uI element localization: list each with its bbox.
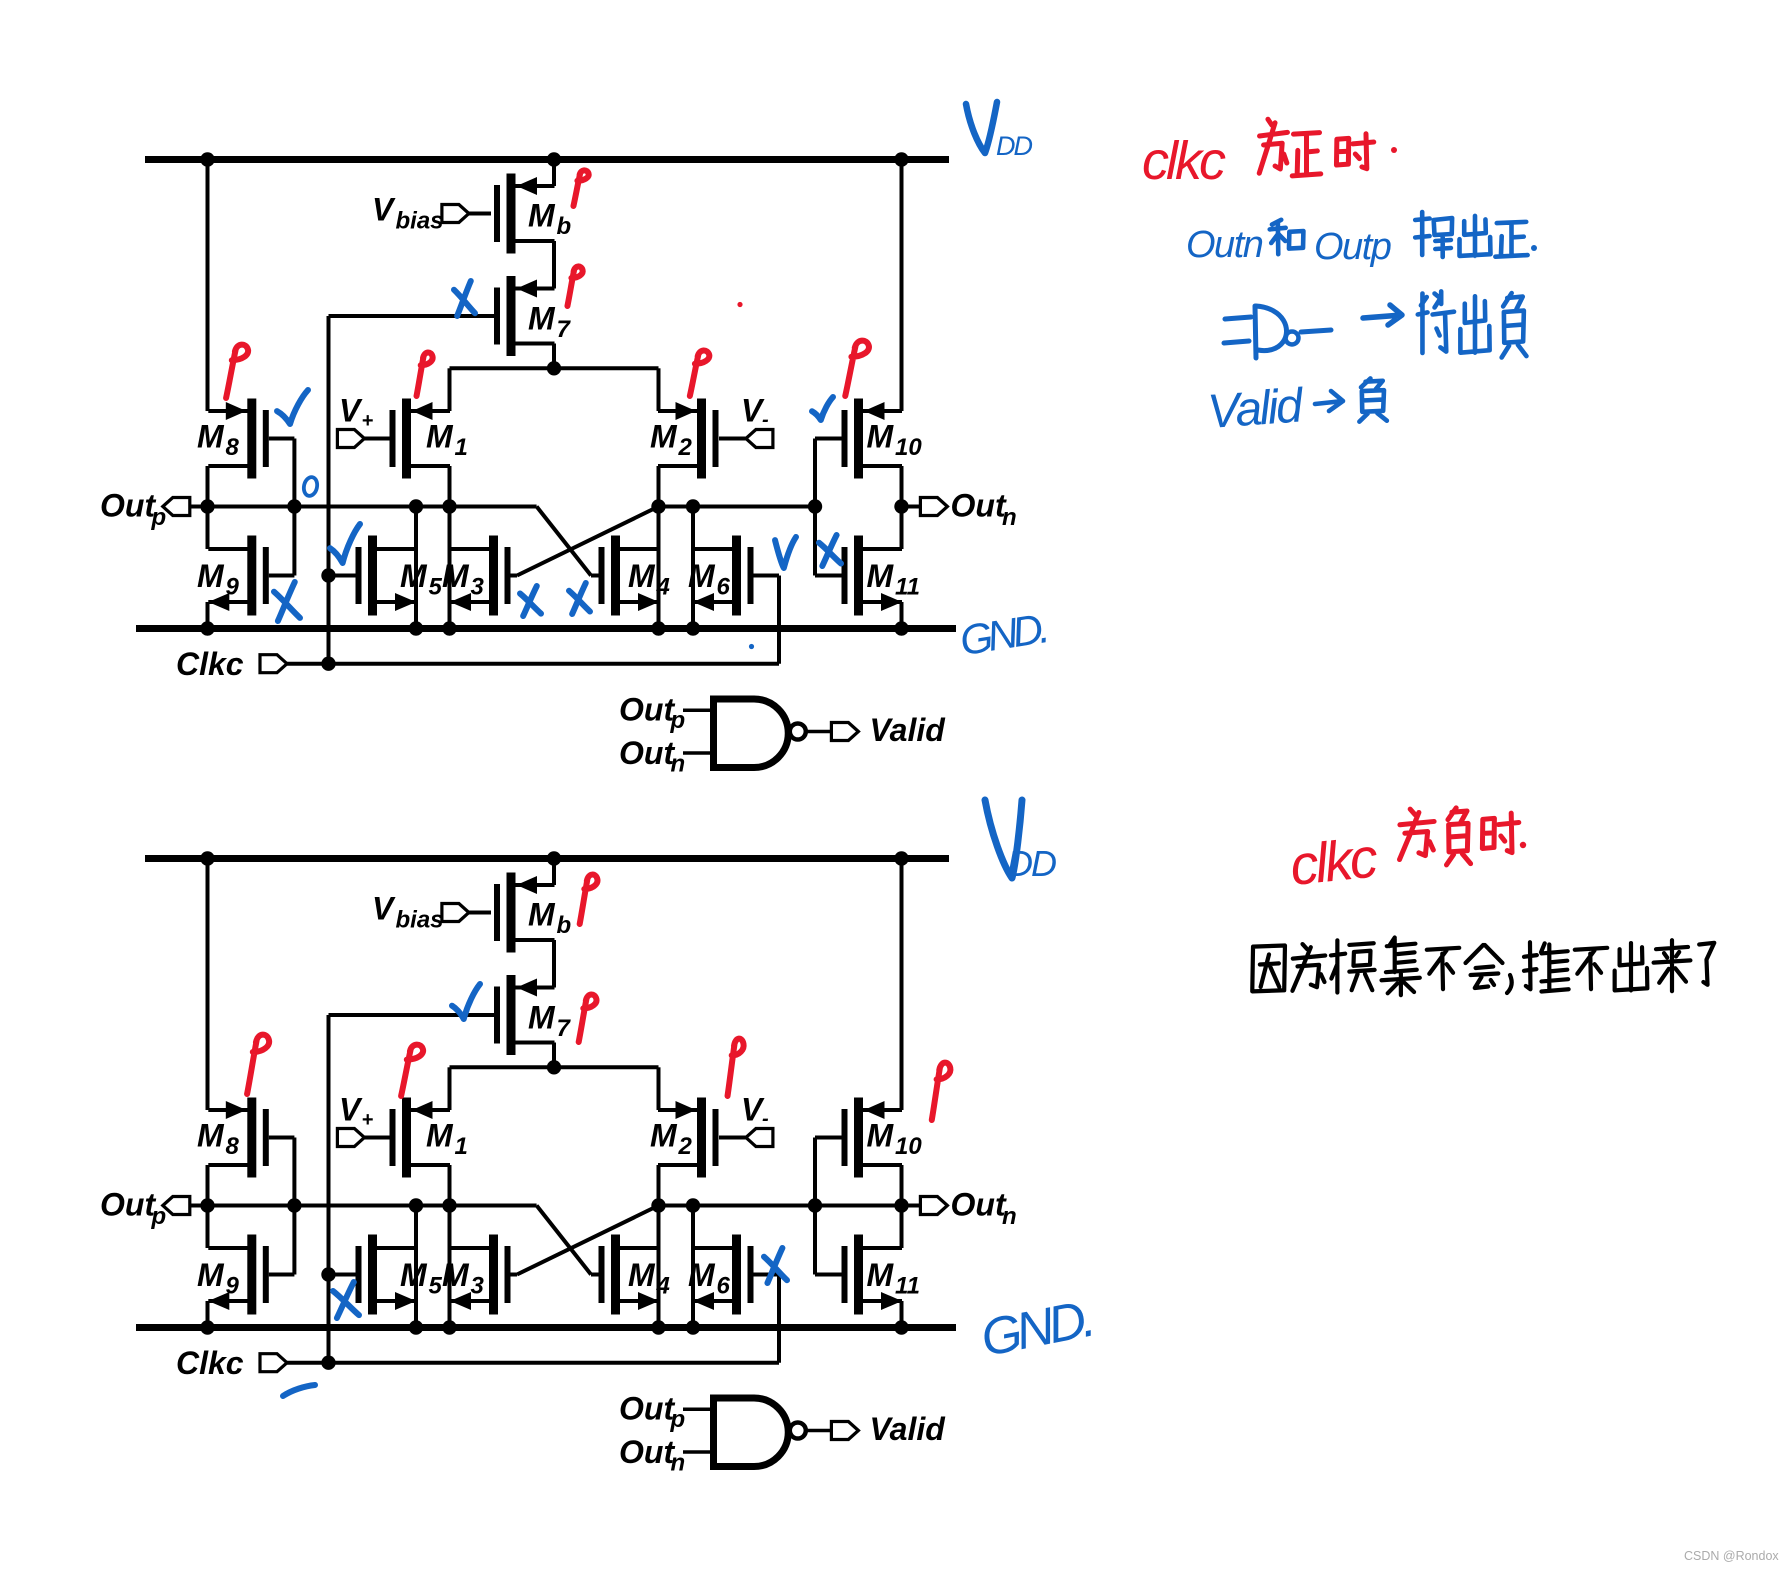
wire internal node right (bottom circuit) [659, 1204, 902, 1208]
transistor M2 (bottom circuit) [650, 1098, 719, 1178]
svg-text:b: b [557, 213, 572, 240]
svg-text:9: 9 [226, 1273, 240, 1300]
label NAND Outn (top circuit) [619, 735, 685, 778]
wire M2 drain down (bottom circuit) [657, 1165, 661, 1328]
annotation black bu char 2 [1575, 948, 1607, 989]
svg-text:M: M [650, 1118, 678, 1154]
transistor M2 (top circuit) [650, 399, 719, 479]
svg-text:M: M [867, 558, 895, 594]
node M5 gate junction (bottom circuit) [321, 1267, 335, 1281]
node Outn junction (top circuit) [894, 499, 908, 513]
svg-text:Out: Out [619, 1391, 675, 1427]
wire Mb drain to M7 (top circuit) [552, 241, 556, 289]
annotation blue dash below Clkc (bottom) [283, 1385, 315, 1396]
svg-text:n: n [1002, 504, 1017, 531]
node gate junction right (bottom circuit) [808, 1198, 822, 1212]
svg-text:clkc: clkc [1287, 825, 1381, 897]
node M6 top junction (bottom circuit) [686, 1198, 700, 1212]
annotation red wei char (bottom) [1400, 809, 1435, 859]
svg-text:Clkc: Clkc [176, 1345, 244, 1381]
node M5 GND junction (bottom circuit) [409, 1320, 423, 1334]
label Outp (top circuit) [100, 488, 166, 532]
svg-text:V: V [339, 393, 363, 429]
annotation black comma [1507, 975, 1512, 993]
svg-text:Out: Out [619, 692, 675, 728]
wire M7 gate to Clkc vertical (top circuit) [329, 316, 495, 664]
svg-text:M: M [528, 897, 556, 933]
node Clkc junction (bottom circuit) [321, 1356, 335, 1370]
pin Vbias (bottom circuit) [442, 904, 491, 922]
node gate junction left (bottom circuit) [287, 1198, 301, 1212]
wire GND rail (bottom circuit) [136, 1324, 956, 1331]
svg-text:M: M [867, 1257, 895, 1293]
wire Mb drain to M7 (bottom circuit) [552, 940, 556, 988]
wire NAND input Outn stub (top circuit) [683, 751, 710, 755]
label Vbias (bottom circuit) [372, 891, 444, 934]
svg-text:+: + [362, 410, 374, 432]
annotation red period (top) [1391, 147, 1397, 153]
node VDD junction right (top circuit) [894, 152, 908, 166]
svg-text:M: M [197, 419, 225, 455]
transistor M11 (bottom circuit) [842, 1235, 920, 1315]
pin Valid output (bottom circuit) [831, 1422, 858, 1440]
svg-text:Clkc: Clkc [176, 646, 244, 682]
wire M7 source lead (top circuit) [537, 287, 554, 291]
annotation blue X on M11 (top) [819, 535, 841, 566]
annotation red P on M10 (bottom) [932, 1063, 951, 1120]
transistor M10 (top circuit) [842, 399, 923, 479]
wire M1 source up to tail (bottom circuit) [448, 1067, 452, 1110]
node M1/M3 junction (top circuit) [442, 499, 456, 513]
svg-text:Valid: Valid [1206, 379, 1306, 439]
svg-text:V: V [372, 192, 396, 228]
wire M10/M11 gate vertical (top circuit) [815, 439, 842, 576]
wire internal node left (top circuit) [208, 505, 537, 509]
node M5 gate junction (top circuit) [321, 568, 335, 582]
pin Outn output (top circuit) [902, 498, 948, 516]
wire M7 gate to Clkc vertical (bottom circuit) [329, 1015, 495, 1363]
svg-text:5: 5 [429, 574, 443, 601]
node Outp junction (top circuit) [200, 499, 214, 513]
label Outn (top circuit) [951, 488, 1017, 532]
svg-text:p: p [670, 1406, 686, 1433]
annotation blue X on M5 (bottom) [333, 1282, 359, 1318]
svg-text:Valid: Valid [870, 1411, 947, 1447]
pin Clkc input (bottom circuit) [260, 1354, 329, 1372]
svg-text:M: M [628, 558, 656, 594]
wire cross-couple to M3 gate (top circuit) [517, 507, 659, 576]
transistor M9 (top circuit) [197, 536, 269, 616]
transistor M6 (top circuit) [688, 536, 754, 616]
annotation blue dot (top) [749, 644, 754, 649]
wire Mb source from VDD (bottom circuit) [537, 859, 554, 886]
wire M10 drain down to Outn (bottom circuit) [900, 1165, 904, 1248]
transistor M7 (top circuit) [494, 276, 572, 356]
wire M1 drain down (top circuit) [448, 466, 452, 629]
svg-text:M: M [442, 1257, 470, 1293]
annotation red zheng char (top) [1292, 133, 1321, 176]
svg-text:4: 4 [656, 1273, 670, 1300]
transistor M11 (top circuit) [842, 536, 920, 616]
annotation blue X on M9 (top) [274, 582, 300, 621]
svg-text:M: M [426, 1118, 454, 1154]
annotation red P on M2 (top) [690, 351, 710, 396]
transistor Mb (bottom circuit) [494, 873, 571, 953]
wire cross-couple to M3 gate (bottom circuit) [517, 1206, 659, 1275]
label Outp (bottom circuit) [100, 1187, 166, 1231]
annotation red P on M7 (top) [567, 266, 582, 306]
svg-text:V: V [339, 1092, 363, 1128]
svg-text:3: 3 [471, 1273, 485, 1300]
wire M7 drain to node (bottom circuit) [552, 1043, 556, 1068]
svg-text:M: M [528, 301, 556, 337]
wire M6 drain vertical (bottom circuit) [691, 1206, 695, 1328]
svg-text:M: M [867, 419, 895, 455]
pin Outp output (bottom circuit) [163, 1197, 208, 1215]
annotation blue X on M7 gate (top) [454, 281, 475, 316]
wire tail node horizontal (top circuit) [450, 366, 659, 370]
svg-text:Out: Out [100, 1187, 156, 1223]
annotation blue X on M3 (top) [520, 586, 541, 616]
annotation red shi char (top) [1336, 134, 1373, 169]
annotation blue check on M8 (top) [277, 390, 308, 424]
annotation blue fu char 2 [1359, 378, 1386, 421]
node VDD junction left (bottom circuit) [200, 851, 214, 865]
annotation red P on M7 (bottom) [579, 995, 597, 1042]
annotation black lai char [1654, 940, 1691, 991]
svg-text:M: M [197, 558, 225, 594]
svg-text:b: b [557, 912, 572, 939]
node M6 top junction (top circuit) [686, 499, 700, 513]
node M5 top junction (top circuit) [409, 499, 423, 513]
pin Vbias (top circuit) [442, 205, 491, 223]
annotation red P on M1 (bottom) [401, 1045, 423, 1096]
wire tail node horizontal (bottom circuit) [450, 1065, 659, 1069]
label Valid (top circuit) [870, 712, 947, 748]
annotation blue zheng char [1495, 222, 1527, 257]
annotation blue he char [1270, 220, 1304, 254]
svg-text:M: M [528, 1000, 556, 1036]
svg-text:6: 6 [717, 1273, 731, 1300]
wire M8/M9 gate vertical (top circuit) [269, 439, 295, 576]
node Clkc junction (top circuit) [321, 657, 335, 671]
annotation black yin char [1252, 945, 1285, 991]
annotation black ji char [1382, 937, 1420, 995]
wire M9 source to GND (top circuit) [206, 602, 210, 629]
svg-text:clkc: clkc [1142, 131, 1226, 191]
svg-text:M: M [442, 558, 470, 594]
svg-text:9: 9 [226, 574, 240, 601]
annotation red P on Mb (top) [573, 170, 588, 206]
wire Mb source from VDD (top circuit) [537, 160, 554, 187]
pin Valid output (top circuit) [831, 723, 858, 741]
pin V- input (top circuit) [719, 430, 773, 448]
wire VDD rail (top circuit) [145, 156, 949, 163]
svg-text:p: p [670, 707, 686, 734]
annotation black tui char [1524, 942, 1569, 991]
svg-text:Out: Out [951, 1187, 1007, 1223]
svg-text:5: 5 [429, 1273, 443, 1300]
transistor M8 (top circuit) [197, 399, 269, 479]
wire M6 gate to Clkc (top circuit) [754, 576, 780, 664]
label NAND Outp (bottom circuit) [619, 1391, 685, 1434]
svg-text:1: 1 [455, 434, 468, 461]
svg-text:10: 10 [895, 434, 922, 461]
svg-text:3: 3 [471, 574, 485, 601]
label watermark [1684, 1549, 1779, 1563]
gate NAND (top circuit) [714, 699, 806, 768]
node gate junction right (top circuit) [808, 499, 822, 513]
annotation red period (bottom) [1520, 842, 1526, 848]
svg-text:n: n [671, 1450, 686, 1477]
wire M10 source from VDD (bottom circuit) [900, 859, 904, 1111]
svg-text:1: 1 [455, 1133, 468, 1160]
svg-text:6: 6 [717, 574, 731, 601]
annotation red shi char (bottom) [1482, 813, 1518, 853]
transistor M5 (bottom circuit) [356, 1235, 443, 1315]
annotation blue GND label (top) [957, 605, 1049, 665]
pin Outn output (bottom circuit) [902, 1197, 948, 1215]
wire M8/M9 gate vertical (bottom circuit) [269, 1138, 295, 1275]
node VDD junction Mb (top circuit) [547, 152, 561, 166]
node tail junction (bottom circuit) [547, 1060, 561, 1074]
wire M6 gate to Clkc (bottom circuit) [754, 1275, 780, 1363]
transistor M1 (bottom circuit) [390, 1098, 468, 1178]
annotation blue VDD label (top) [966, 102, 1032, 161]
annotation blue check on M7 gate (bottom) [452, 984, 480, 1019]
wire M5 drain vertical (bottom circuit) [414, 1206, 418, 1328]
annotation blue GND label (bottom) [976, 1290, 1095, 1368]
annotation blue 0 on node (top) [302, 476, 319, 497]
wire cross-couple to M4 gate (top circuit) [537, 507, 602, 576]
annotation blue arrow 2 [1315, 391, 1343, 411]
annotation blue NAND sketch [1224, 306, 1331, 358]
label NAND Outn (bottom circuit) [619, 1434, 685, 1477]
wire Clkc line (top circuit) [329, 662, 780, 666]
wire M10 source from VDD (top circuit) [900, 160, 904, 412]
transistor M1 (top circuit) [390, 399, 468, 479]
annotation black mo char [1331, 940, 1375, 992]
svg-text:11: 11 [895, 1273, 920, 1300]
node M11 GND junction (bottom circuit) [894, 1320, 908, 1334]
annotation blue Outp text [1314, 226, 1391, 268]
wire cross-couple to M4 gate (bottom circuit) [537, 1206, 602, 1275]
node VDD junction Mb (bottom circuit) [547, 851, 561, 865]
node M9 GND junction (bottom circuit) [200, 1320, 214, 1334]
node M6 GND junction (top circuit) [686, 621, 700, 635]
svg-text:n: n [1002, 1203, 1017, 1230]
svg-text:bias: bias [396, 907, 444, 934]
wire M7 source lead (bottom circuit) [537, 986, 554, 990]
annotation blue fu char [1502, 293, 1527, 357]
label V+ (top circuit) [339, 393, 374, 433]
wire M6 drain vertical (top circuit) [691, 507, 695, 629]
node M9 GND junction (top circuit) [200, 621, 214, 635]
annotation red clkc text (bottom) [1287, 825, 1381, 897]
transistor M5 (top circuit) [356, 536, 443, 616]
node tail junction (top circuit) [547, 361, 561, 375]
wire M2 source up to tail (bottom circuit) [657, 1067, 661, 1110]
label Clkc (bottom circuit) [176, 1345, 244, 1381]
annotation blue VDD label (bottom) [985, 800, 1056, 884]
wire NAND output (top circuit) [806, 730, 832, 734]
svg-text:p: p [151, 1203, 167, 1230]
wire M1 source up to tail (top circuit) [448, 368, 452, 411]
node M11 GND junction (top circuit) [894, 621, 908, 635]
wire M5 gate to Clkc (bottom circuit) [329, 1273, 356, 1277]
gate NAND (bottom circuit) [714, 1398, 806, 1467]
svg-text:2: 2 [678, 434, 693, 461]
svg-text:M: M [197, 1257, 225, 1293]
node M3 GND junction (top circuit) [442, 621, 456, 635]
wire M2 source up to tail (top circuit) [657, 368, 661, 411]
wire M8 source from VDD (top circuit) [206, 160, 210, 412]
annotation blue X on M6 (bottom) [764, 1248, 787, 1283]
annotation red P on M2 (bottom) [728, 1039, 744, 1096]
annotation red P on M1 (top) [417, 352, 433, 396]
svg-text:Out: Out [100, 488, 156, 524]
wire Clkc line (bottom circuit) [329, 1361, 780, 1365]
wire M2 drain down (top circuit) [657, 466, 661, 629]
node VDD junction left (top circuit) [200, 152, 214, 166]
wire VDD rail (bottom circuit) [145, 855, 949, 862]
svg-text:-: - [762, 1108, 769, 1130]
node Outn junction (bottom circuit) [894, 1198, 908, 1212]
node M5 GND junction (top circuit) [409, 621, 423, 635]
wire M5 drain vertical (top circuit) [414, 507, 418, 629]
svg-text:M: M [628, 1257, 656, 1293]
svg-text:Valid: Valid [870, 712, 947, 748]
svg-text:Out: Out [619, 1434, 675, 1470]
node Outp junction (bottom circuit) [200, 1198, 214, 1212]
wire M11 source to GND (top circuit) [900, 602, 904, 629]
svg-text:DD: DD [996, 131, 1032, 161]
svg-text:bias: bias [396, 208, 444, 235]
annotation red P on Mb (bottom) [580, 875, 598, 924]
wire M7 drain to node (top circuit) [552, 344, 556, 369]
annotation blue arrow 1 [1363, 305, 1402, 325]
label Vbias (top circuit) [372, 192, 444, 235]
annotation blue Outn text [1186, 224, 1263, 266]
svg-text:8: 8 [226, 1133, 240, 1160]
annotation blue period [1531, 245, 1537, 251]
pin Outp output (top circuit) [163, 498, 208, 516]
svg-text:7: 7 [557, 1015, 572, 1042]
svg-text:V: V [372, 891, 396, 927]
wire NAND input Outp stub (top circuit) [683, 709, 710, 713]
svg-text:+: + [362, 1109, 374, 1131]
svg-text:4: 4 [656, 574, 670, 601]
node gate junction left (top circuit) [287, 499, 301, 513]
wire GND rail (top circuit) [136, 625, 956, 632]
transistor M6 (bottom circuit) [688, 1235, 754, 1315]
svg-text:Outn: Outn [1186, 224, 1263, 266]
label Valid (bottom circuit) [870, 1411, 947, 1447]
annotation blue chu char [1460, 216, 1491, 256]
label NAND Outp (top circuit) [619, 692, 685, 735]
svg-text:M: M [197, 1118, 225, 1154]
pin V+ input (top circuit) [337, 430, 390, 448]
wire M10/M11 gate vertical (bottom circuit) [815, 1138, 842, 1275]
label Clkc (top circuit) [176, 646, 244, 682]
node M1/M3 junction (bottom circuit) [442, 1198, 456, 1212]
svg-text:DD: DD [1007, 843, 1056, 884]
label Outn (bottom circuit) [951, 1187, 1017, 1231]
svg-text:2: 2 [678, 1133, 693, 1160]
svg-text:Outp: Outp [1314, 226, 1391, 268]
svg-text:Out: Out [619, 735, 675, 771]
annotation black chu char 3 [1615, 943, 1648, 990]
wire M8 drain down to Outp (top circuit) [206, 466, 210, 549]
svg-text:-: - [762, 409, 769, 431]
svg-text:11: 11 [895, 574, 920, 601]
transistor M4 (top circuit) [599, 536, 670, 616]
transistor M3 (top circuit) [442, 536, 511, 616]
wire M8 source from VDD (bottom circuit) [206, 859, 210, 1111]
wire internal node right (top circuit) [659, 505, 816, 509]
transistor M7 (bottom circuit) [494, 975, 572, 1055]
annotation red wei char (top) [1259, 119, 1287, 173]
node M6 GND junction (bottom circuit) [686, 1320, 700, 1334]
pin Clkc input (top circuit) [260, 655, 329, 673]
label V+ (bottom circuit) [339, 1092, 374, 1132]
annotation blue check on M10 (top) [812, 397, 833, 420]
annotation black bu char [1427, 948, 1459, 989]
svg-text:M: M [867, 1118, 895, 1154]
annotation blue chu char 2 [1460, 296, 1489, 352]
annotation blue X on M4 (top) [569, 583, 590, 614]
annotation blue V on M6 (top) [775, 537, 796, 568]
wire M5 gate to Clkc (top circuit) [329, 574, 356, 578]
svg-text:n: n [671, 751, 686, 778]
transistor M9 (bottom circuit) [197, 1235, 269, 1315]
wire M3 gate from cross (top circuit) [511, 574, 518, 578]
annotation red P on M8 (top) [226, 345, 248, 398]
pin V+ input (bottom circuit) [337, 1129, 390, 1147]
wire M10 drain down to Outn (top circuit) [900, 466, 904, 549]
wire M8 drain down to Outp (bottom circuit) [206, 1165, 210, 1248]
node VDD junction right (bottom circuit) [894, 851, 908, 865]
annotation red P on M10 (top) [845, 341, 869, 396]
svg-text:10: 10 [895, 1133, 922, 1160]
annotation blue Valid text [1206, 379, 1306, 439]
annotation blue shu char [1415, 212, 1452, 257]
wire M11 source to GND (bottom circuit) [900, 1301, 904, 1328]
svg-text:M: M [650, 419, 678, 455]
annotation red P on M8 (bottom) [247, 1035, 269, 1094]
svg-text:7: 7 [557, 316, 572, 343]
annotation blue check on M5 (top) [330, 524, 360, 563]
node M2/M4 junction (bottom circuit) [651, 1198, 665, 1212]
annotation black wei char [1292, 944, 1325, 991]
wire M9 source to GND (bottom circuit) [206, 1301, 210, 1328]
wire NAND output (bottom circuit) [806, 1429, 832, 1433]
transistor Mb (top circuit) [494, 174, 571, 254]
svg-text:CSDN @Rondox: CSDN @Rondox [1684, 1549, 1779, 1563]
label V- (bottom circuit) [741, 1092, 769, 1131]
annotation red dot (top) [737, 302, 742, 307]
svg-text:M: M [426, 419, 454, 455]
transistor M3 (bottom circuit) [442, 1235, 511, 1315]
pin V- input (bottom circuit) [719, 1129, 773, 1147]
annotation red clkc text (top) [1142, 131, 1226, 191]
wire internal node left (bottom circuit) [208, 1204, 537, 1208]
node M2/M4 junction (top circuit) [651, 499, 665, 513]
wire NAND input Outp stub (bottom circuit) [683, 1408, 710, 1412]
annotation black le char [1699, 943, 1714, 985]
svg-text:p: p [151, 504, 167, 531]
transistor M8 (bottom circuit) [197, 1098, 269, 1178]
